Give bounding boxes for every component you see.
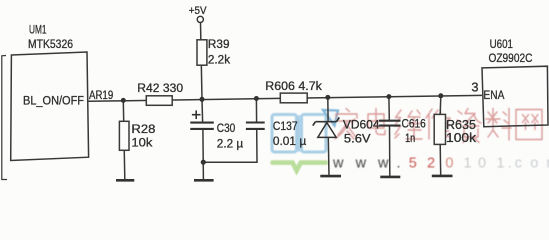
svg-text:100k: 100k bbox=[446, 130, 477, 145]
svg-text:UM1: UM1 bbox=[29, 22, 47, 36]
svg-text:ENA: ENA bbox=[483, 88, 505, 102]
svg-text:3: 3 bbox=[471, 80, 478, 95]
svg-text:BL_ON/OFF: BL_ON/OFF bbox=[23, 93, 84, 107]
svg-text:OZ9902C: OZ9902C bbox=[489, 51, 533, 65]
svg-text:2.2 µ: 2.2 µ bbox=[217, 137, 243, 151]
svg-text:R606 4.7k: R606 4.7k bbox=[265, 79, 322, 93]
svg-text:1n: 1n bbox=[405, 131, 415, 145]
svg-text:R28: R28 bbox=[131, 122, 155, 136]
svg-text:U601: U601 bbox=[490, 37, 514, 51]
svg-text:MTK5326: MTK5326 bbox=[28, 37, 73, 51]
svg-text:2.2k: 2.2k bbox=[208, 53, 231, 67]
svg-text:0.01 µ: 0.01 µ bbox=[273, 134, 306, 148]
svg-text:+5V: +5V bbox=[189, 5, 208, 17]
svg-text:C137: C137 bbox=[273, 119, 298, 133]
svg-text:R42 330: R42 330 bbox=[137, 81, 183, 95]
svg-text:5.6V: 5.6V bbox=[344, 131, 372, 145]
svg-text:C616: C616 bbox=[402, 117, 426, 131]
svg-text:C30: C30 bbox=[217, 121, 236, 135]
svg-text:AR19: AR19 bbox=[89, 88, 113, 102]
svg-text:VD604: VD604 bbox=[343, 118, 380, 132]
svg-text:10k: 10k bbox=[131, 135, 153, 149]
svg-text:R39: R39 bbox=[208, 37, 230, 51]
